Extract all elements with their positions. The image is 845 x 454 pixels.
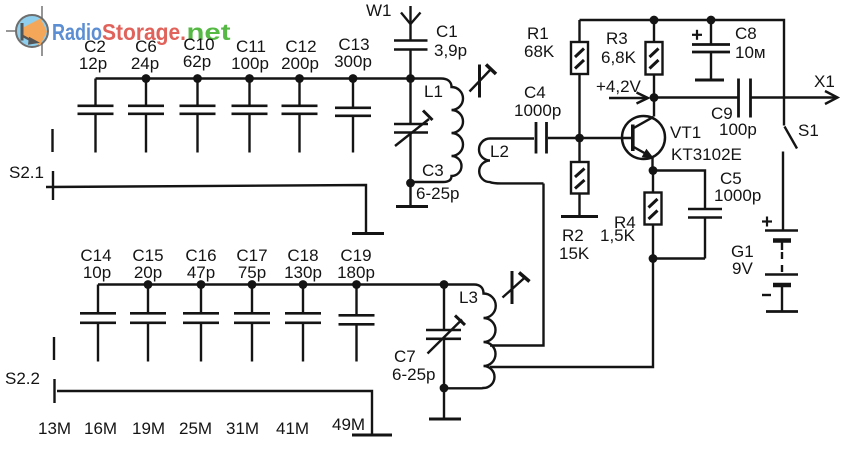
bus bank2 wire bbox=[98, 283, 444, 285]
resistor R3 bbox=[646, 20, 663, 98]
svg-text:100p: 100p bbox=[231, 54, 269, 73]
svg-text:10p: 10p bbox=[83, 263, 111, 282]
svg-text:16M: 16M bbox=[84, 419, 117, 438]
X1 arrowhead bbox=[825, 91, 838, 104]
svg-text:41M: 41M bbox=[276, 419, 309, 438]
resistor R1 bbox=[571, 20, 588, 138]
capacitor C18 bbox=[285, 285, 321, 362]
label G1 bbox=[731, 242, 754, 278]
labels bank1 bbox=[79, 35, 372, 73]
svg-text:180p: 180p bbox=[337, 263, 375, 282]
wire S2.1 to ground bbox=[46, 185, 366, 232]
antenna W1 bbox=[401, 6, 421, 41]
label R3 bbox=[601, 29, 637, 67]
band labels bbox=[38, 415, 365, 438]
switch S2.1 bbox=[51, 129, 54, 200]
adjustment mark L1 bbox=[470, 65, 497, 98]
resistor R2 bbox=[571, 138, 589, 216]
adjustment mark L3 bbox=[503, 271, 530, 304]
node collector junction bbox=[650, 93, 659, 102]
svg-text:1,5K: 1,5K bbox=[600, 226, 636, 245]
label R2 bbox=[559, 226, 590, 263]
svg-text:9V: 9V bbox=[732, 259, 753, 278]
svg-text:W1: W1 bbox=[366, 1, 392, 20]
ground under L1 bbox=[396, 183, 428, 207]
wire emitter junction to C5 top bbox=[653, 171, 705, 209]
svg-text:13M: 13M bbox=[38, 419, 71, 438]
inductor L2 bbox=[479, 139, 544, 184]
label R1 bbox=[524, 24, 555, 61]
svg-text:100p: 100p bbox=[719, 120, 757, 139]
svg-text:20p: 20p bbox=[134, 263, 162, 282]
switch S1 bbox=[783, 127, 797, 230]
capacitor C11 bbox=[232, 79, 268, 153]
svg-text:R2: R2 bbox=[562, 226, 584, 245]
capacitor C13 bbox=[335, 79, 371, 153]
svg-text:L2: L2 bbox=[490, 142, 509, 161]
capacitor C15 bbox=[130, 285, 166, 362]
svg-text:47p: 47p bbox=[187, 263, 215, 282]
svg-text:C3: C3 bbox=[422, 161, 444, 180]
ground S2.2 bbox=[352, 434, 392, 437]
capacitor C19 bbox=[339, 285, 375, 362]
svg-text:1000p: 1000p bbox=[714, 186, 761, 205]
svg-text:3,9p: 3,9p bbox=[434, 41, 467, 60]
ground under L3 bbox=[429, 388, 461, 419]
capacitor C2 bbox=[78, 79, 114, 153]
svg-text:R1: R1 bbox=[527, 24, 549, 43]
resistor R4 bbox=[645, 171, 662, 259]
inductor L3 bbox=[444, 285, 496, 389]
label VT1 bbox=[670, 123, 742, 164]
capacitor C17 bbox=[234, 285, 270, 362]
battery G1 bbox=[762, 217, 798, 312]
svg-text:200p: 200p bbox=[281, 54, 319, 73]
ground under R2 bbox=[561, 215, 598, 218]
svg-text:+4,2V: +4,2V bbox=[596, 77, 642, 96]
svg-text:75p: 75p bbox=[238, 263, 266, 282]
svg-text:25M: 25M bbox=[179, 419, 212, 438]
svg-text:KT3102E: KT3102E bbox=[671, 145, 742, 164]
ground S2.1 bbox=[352, 232, 384, 235]
capacitor C16 bbox=[183, 285, 219, 362]
capacitor C14 bbox=[80, 285, 116, 362]
bus bank1 wire bbox=[96, 77, 411, 79]
node antenna junction bbox=[406, 74, 415, 83]
node L1 bottom bbox=[406, 179, 415, 188]
logo emitter arrow bbox=[22, 36, 31, 41]
top rail wire bbox=[580, 20, 785, 126]
capacitor C9 bbox=[739, 79, 751, 118]
labels bank2 bbox=[80, 246, 375, 282]
node base junction bbox=[575, 134, 584, 143]
wire base bbox=[580, 137, 632, 139]
label C8 bbox=[735, 24, 766, 62]
svg-text:VT1: VT1 bbox=[670, 123, 701, 142]
label C4 bbox=[514, 83, 561, 120]
svg-text:49M: 49M bbox=[332, 415, 365, 434]
svg-text:12p: 12p bbox=[79, 54, 107, 73]
label C1 bbox=[434, 22, 467, 60]
svg-text:15K: 15K bbox=[559, 244, 590, 263]
svg-text:31M: 31M bbox=[226, 419, 259, 438]
svg-text:1000p: 1000p bbox=[514, 101, 561, 120]
wire S2.2 to ground bbox=[57, 391, 372, 434]
svg-text:X1: X1 bbox=[814, 72, 835, 91]
logo base bar bbox=[21, 23, 24, 41]
svg-text:6-25p: 6-25p bbox=[416, 184, 459, 203]
node L3 bottom bbox=[440, 384, 449, 393]
+4,2V arrow bbox=[609, 93, 648, 104]
svg-text:C4: C4 bbox=[524, 83, 546, 102]
svg-text:S2.1: S2.1 bbox=[9, 163, 44, 182]
inductor L1 bbox=[411, 79, 464, 183]
trimmer C3 bbox=[394, 79, 433, 184]
junction dots bank2 bbox=[144, 280, 361, 289]
svg-text:300p: 300p bbox=[334, 52, 372, 71]
transistor VT1 bbox=[622, 98, 665, 171]
capacitor C4 bbox=[536, 122, 580, 154]
switch S2.2 bbox=[53, 337, 56, 403]
node emitter junction bbox=[649, 166, 658, 175]
capacitor C12 bbox=[282, 79, 318, 153]
logo RadioStorage.net icon crosshair bbox=[6, 6, 42, 56]
wire L3 tap2 to R4 bottom bbox=[490, 259, 653, 368]
svg-text:19M: 19M bbox=[132, 419, 165, 438]
trimmer C7 bbox=[426, 285, 465, 389]
svg-text:68K: 68K bbox=[524, 42, 555, 61]
label C7 bbox=[392, 347, 435, 384]
svg-text:6-25p: 6-25p bbox=[392, 365, 435, 384]
logo text bbox=[52, 19, 231, 45]
label C9 bbox=[711, 104, 757, 139]
capacitor C6 bbox=[128, 79, 164, 153]
svg-text:10м: 10м bbox=[735, 43, 766, 62]
svg-text:62p: 62p bbox=[183, 52, 211, 71]
capacitor C8 bbox=[692, 20, 730, 80]
logo circle bbox=[16, 15, 48, 47]
capacitor C1 bbox=[394, 41, 428, 79]
wire collector junction to C9 bbox=[654, 96, 738, 98]
label R4 bbox=[600, 213, 636, 245]
capacitor C5 bbox=[688, 209, 722, 259]
svg-text:C1: C1 bbox=[436, 22, 458, 41]
node bus2/L3 top bbox=[440, 280, 449, 289]
svg-text:S2.2: S2.2 bbox=[5, 369, 40, 388]
svg-text:L1: L1 bbox=[424, 82, 443, 101]
label C3 bbox=[416, 161, 459, 203]
node rail R3 bbox=[650, 16, 659, 25]
svg-text:R3: R3 bbox=[606, 29, 628, 48]
svg-text:L3: L3 bbox=[459, 288, 478, 307]
logo transistor wedge bbox=[23, 19, 47, 46]
label C5 bbox=[714, 169, 761, 205]
svg-text:C7: C7 bbox=[394, 347, 416, 366]
wire C5 bottom to R4 bottom bbox=[653, 257, 705, 259]
node R4 bottom junction bbox=[649, 254, 658, 263]
svg-text:S1: S1 bbox=[798, 121, 819, 140]
svg-text:130p: 130p bbox=[284, 263, 322, 282]
node rail C8 bbox=[707, 16, 716, 25]
svg-text:6,8K: 6,8K bbox=[601, 48, 637, 67]
svg-text:24p: 24p bbox=[131, 54, 159, 73]
svg-text:C8: C8 bbox=[735, 24, 757, 43]
wire L3 tap1 to L2 bbox=[490, 184, 544, 346]
wire C9 to X1 bbox=[752, 96, 837, 98]
capacitor C10 bbox=[180, 79, 216, 153]
junction dots bank1 bbox=[142, 74, 358, 83]
